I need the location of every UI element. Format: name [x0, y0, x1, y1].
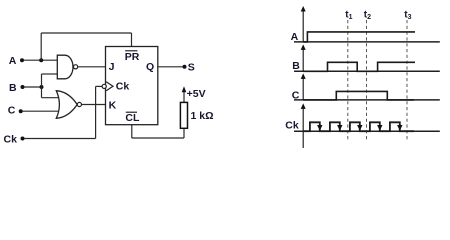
- NOR gate U2 body: [56, 91, 77, 119]
- svg-text:+5V: +5V: [187, 88, 206, 100]
- CL overline: [126, 111, 137, 113]
- baseline row C: [294, 99, 440, 101]
- wire C to NOR input 2: [22, 110, 59, 112]
- wire B terminal to junction: [24, 86, 42, 88]
- flip-flop U3 JK body: [106, 47, 158, 125]
- wire B to NOR input 1: [42, 97, 60, 99]
- dashed line t3: [406, 20, 408, 141]
- axis arrowhead Ck: [301, 103, 306, 109]
- axis B row: [302, 49, 304, 72]
- wire Ck horizontal run: [24, 138, 96, 140]
- dashed line t1: [347, 20, 349, 141]
- baseline row Ck: [294, 130, 440, 132]
- svg-text:Q: Q: [146, 61, 154, 73]
- svg-text:Ck: Ck: [285, 119, 299, 131]
- waveform B: [303, 62, 415, 71]
- junction B: [40, 85, 44, 89]
- baseline row B: [294, 70, 440, 72]
- wire Q output to node S: [158, 66, 185, 68]
- wire NOR output to K: [82, 104, 106, 106]
- svg-text:t3: t3: [404, 9, 411, 21]
- node C terminal dot: [19, 109, 23, 113]
- wire NAND output to J: [78, 66, 106, 68]
- clock falling-edge arrow 3: [357, 125, 362, 131]
- clock falling-edge arrow 2: [337, 125, 342, 131]
- svg-text:J: J: [109, 61, 115, 73]
- junction A: [39, 58, 43, 62]
- dashed line t2: [366, 20, 368, 141]
- clock falling-edge arrow 4: [377, 125, 382, 131]
- waveform A: [303, 32, 415, 42]
- waveform Ck: [303, 122, 414, 131]
- flip-flop clock bubble: [102, 84, 106, 88]
- wire bottom run to CL: [132, 137, 184, 139]
- node B terminal dot: [21, 85, 25, 89]
- svg-text:PR: PR: [125, 51, 140, 63]
- svg-text:1 kΩ: 1 kΩ: [191, 110, 214, 122]
- wire A terminal to NAND input 1: [24, 59, 58, 61]
- wire B to NAND input 2: [42, 73, 58, 75]
- timing diagram axis line A row: [302, 11, 304, 149]
- wire resistor bottom: [183, 128, 185, 138]
- wire Ck stub to clock bubble: [96, 85, 103, 87]
- wire top run to PR: [41, 32, 131, 34]
- node S dot: [183, 65, 187, 69]
- svg-text:S: S: [188, 61, 195, 73]
- NOR gate U2 output bubble: [77, 102, 81, 106]
- flip-flop edge-trigger triangle: [106, 82, 113, 91]
- svg-text:Ck: Ck: [116, 81, 130, 93]
- svg-text:B: B: [9, 82, 17, 94]
- axis arrowhead C: [301, 73, 306, 79]
- baseline row A: [294, 41, 440, 43]
- svg-text:CL: CL: [125, 112, 140, 124]
- axis arrowhead B: [301, 44, 306, 50]
- node Ck terminal dot: [21, 137, 25, 141]
- wire PR stub: [131, 33, 133, 47]
- waveform C: [303, 91, 414, 100]
- resistor R1 1 kOhm body: [180, 102, 187, 128]
- svg-text:t2: t2: [364, 9, 371, 21]
- axis arrowhead A: [301, 6, 306, 12]
- svg-text:t1: t1: [345, 9, 352, 21]
- node A terminal dot: [20, 58, 24, 62]
- row baselines: [294, 42, 440, 131]
- NAND gate U1 body: [57, 55, 73, 79]
- wire CL stub: [131, 125, 133, 138]
- svg-text:C: C: [292, 90, 300, 102]
- power +5V arrowhead: [182, 86, 187, 92]
- svg-text:Ck: Ck: [4, 133, 18, 145]
- svg-text:C: C: [8, 105, 16, 117]
- svg-text:A: A: [291, 31, 299, 43]
- wire A riser to top: [40, 33, 42, 60]
- axis C row: [302, 78, 304, 100]
- NAND gate U1 output bubble: [74, 65, 78, 69]
- svg-text:B: B: [292, 60, 300, 72]
- clock falling-edge arrow 5: [397, 125, 402, 131]
- axis Ck row: [302, 108, 304, 148]
- PR overline: [125, 50, 137, 52]
- power +5V arrow line: [183, 92, 185, 103]
- clock falling-edge arrow 1: [317, 125, 322, 131]
- svg-text:K: K: [109, 100, 117, 112]
- svg-text:A: A: [9, 55, 17, 67]
- wire B vertical branch: [41, 74, 43, 98]
- wire Ck riser: [95, 86, 97, 138]
